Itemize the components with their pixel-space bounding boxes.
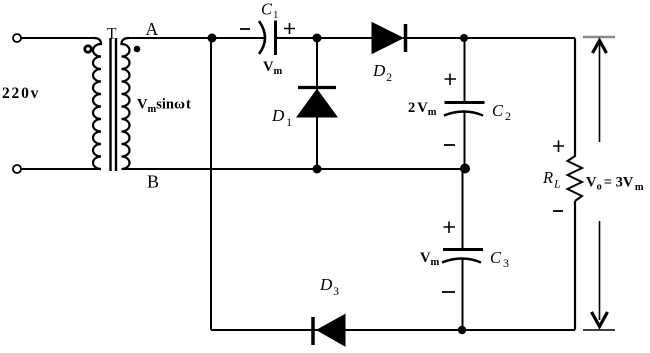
measurement bar bottom [583, 329, 615, 331]
node D1-B rail junction dot [313, 165, 322, 174]
node A junction dot [208, 34, 217, 43]
transformer core line 2 [115, 38, 117, 171]
resistor RL [568, 156, 583, 201]
svg-text:Vmsinωt: Vmsinωt [137, 97, 191, 116]
wire bottom rail [211, 329, 575, 331]
plus sign near C1 [284, 23, 295, 34]
diode D3 cathode bar [311, 317, 315, 345]
arrow up shaft [599, 44, 601, 142]
svg-text:220v: 220v [2, 85, 40, 102]
diode D2 cathode bar [404, 24, 408, 52]
minus sign below C3 [442, 291, 455, 293]
diode D3 [317, 315, 345, 347]
phasing dot secondary [134, 46, 141, 53]
node C1-D1-D2 junction dot [313, 34, 322, 43]
wire right vertical bottom [574, 201, 576, 330]
phasing dot primary [85, 46, 91, 52]
wire D2 to top-right corner [403, 37, 575, 39]
diode D2 [372, 23, 403, 54]
wire C2 branch top [464, 38, 466, 102]
diode D1 [297, 90, 337, 118]
minus sign near C1 [240, 28, 250, 30]
arrow down shaft [599, 221, 601, 320]
wire right vertical top [574, 38, 576, 157]
wire C2 bottom [464, 112, 466, 170]
terminal top-left [13, 34, 21, 42]
wire C3 branch top [462, 169, 464, 248]
node C3-bottom rail junction dot [458, 326, 466, 334]
plus sign above C3 [444, 222, 456, 234]
wire C1 to D2 [276, 37, 373, 39]
wire D1 branch [316, 38, 318, 169]
plus sign above C2 [445, 74, 457, 86]
transformer core line 1 [109, 38, 111, 171]
wire B rail [122, 168, 465, 170]
capacitor C3 curved plate [442, 259, 481, 263]
measurement bar top (gray) [583, 36, 615, 39]
wire C3 bottom [462, 259, 464, 331]
minus sign near RL [553, 210, 563, 212]
capacitor C1 curved plate [259, 21, 265, 54]
svg-text:B: B [147, 172, 159, 192]
arrow up head [593, 41, 607, 54]
wire left vertical [210, 38, 212, 330]
svg-text:T: T [107, 26, 117, 43]
capacitor C3 top plate [443, 248, 483, 251]
node C2-C3 junction dot [460, 164, 470, 174]
arrow down head [592, 312, 608, 327]
minus sign below C2 [444, 144, 455, 146]
node D2-C2 junction dot [460, 34, 468, 42]
capacitor C1 straight plate [274, 21, 277, 56]
capacitor C2 top plate [445, 101, 485, 104]
transformer T primary winding [93, 38, 101, 169]
svg-text:A: A [146, 19, 159, 39]
terminal bottom-left [13, 165, 21, 173]
capacitor C2 curved plate [444, 112, 483, 116]
diode D1 cathode bar [298, 86, 336, 89]
transformer T secondary winding [122, 38, 130, 169]
wire primary bottom [21, 168, 101, 170]
plus sign near RL [553, 141, 564, 153]
wire top rail A to C1 [129, 37, 264, 39]
wire primary top [21, 37, 94, 39]
